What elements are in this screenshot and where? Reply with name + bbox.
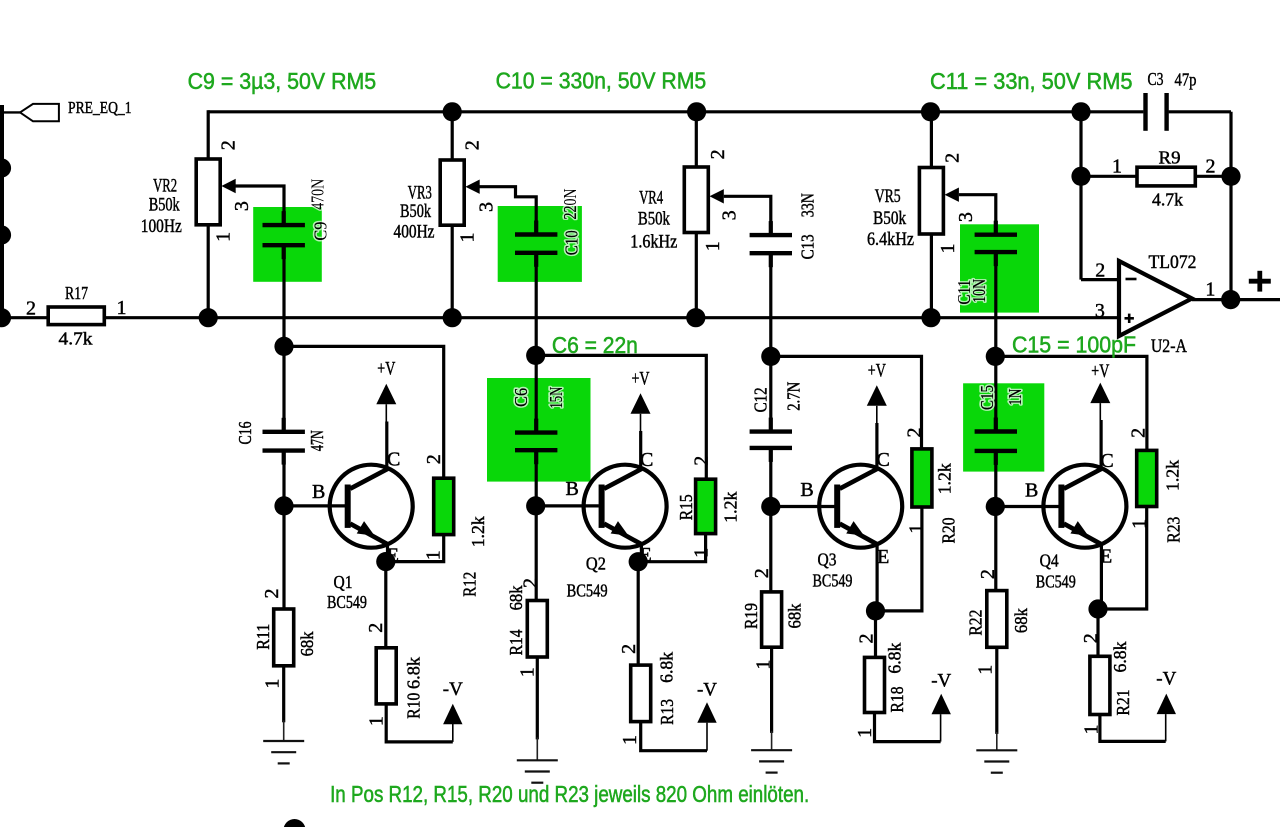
svg-text:2: 2	[1080, 633, 1102, 643]
svg-text:2: 2	[261, 589, 283, 599]
wire VR5 riser	[930, 112, 933, 168]
svg-text:6.8k: 6.8k	[403, 657, 423, 689]
transistor Q4	[1043, 465, 1126, 548]
svg-text:C: C	[387, 448, 400, 470]
wire op-amp pin2	[1081, 278, 1119, 281]
svg-text:R13: R13	[657, 699, 677, 725]
wire VR3 riser	[451, 112, 454, 160]
svg-text:6.4kHz: 6.4kHz	[867, 230, 914, 250]
svg-text:+V: +V	[632, 368, 650, 389]
svg-text:1: 1	[702, 241, 724, 251]
resistor R15 (green)	[696, 479, 716, 533]
wire base node to Q2	[536, 504, 599, 507]
svg-text:R11: R11	[253, 624, 273, 650]
resistor R23 (green)	[1137, 450, 1157, 506]
svg-text:-V: -V	[1156, 669, 1176, 690]
svg-text:3: 3	[719, 210, 741, 220]
wire branch to R15 loop	[536, 355, 707, 479]
node stage4 branch junction	[986, 347, 1005, 366]
ground under R14	[536, 737, 538, 760]
wire Q4 emitter	[1100, 543, 1103, 609]
svg-text:1: 1	[213, 232, 235, 242]
svg-text:C13: C13	[798, 234, 818, 259]
wire right vertical from C3 to output	[1229, 112, 1232, 300]
capacitor C9	[263, 223, 305, 227]
wire R14 to ground	[536, 657, 539, 739]
svg-text:47p: 47p	[1175, 70, 1197, 90]
partial junction dot bottom edge	[284, 819, 306, 827]
label C6 15N	[511, 388, 531, 407]
svg-text:-V: -V	[931, 670, 951, 691]
svg-text:2: 2	[618, 644, 640, 654]
node R9 pin2 junction	[1221, 167, 1240, 186]
wire Q3 collector	[875, 423, 878, 470]
highlight box over C10	[498, 206, 582, 282]
svg-text:R20: R20	[938, 517, 958, 543]
svg-text:4.7k: 4.7k	[1152, 190, 1183, 210]
capacitor C10	[515, 232, 557, 236]
op-amp U2-A TL072	[1119, 261, 1192, 336]
svg-text:Q1: Q1	[334, 572, 353, 592]
wire branch to R12 loop	[284, 346, 444, 478]
svg-text:1: 1	[366, 716, 388, 726]
highlight box over C9	[253, 207, 322, 282]
svg-text:220N: 220N	[560, 188, 580, 219]
svg-text:BC549: BC549	[1036, 572, 1076, 592]
svg-text:1: 1	[854, 728, 876, 738]
svg-text:R15: R15	[676, 494, 696, 520]
svg-text:2: 2	[217, 140, 239, 150]
wire VR4 riser	[695, 112, 698, 167]
svg-text:1.2k: 1.2k	[935, 463, 955, 494]
node Q1 base junction	[274, 496, 293, 515]
resistor R10	[376, 648, 396, 704]
svg-text:VR2: VR2	[153, 177, 177, 197]
svg-text:3: 3	[476, 202, 498, 212]
wire Q2 collector	[639, 431, 642, 470]
wire C15 to Q4 base node	[994, 454, 997, 590]
node R9 pin1 junction	[1071, 167, 1090, 186]
svg-text:2: 2	[977, 569, 999, 579]
wire middle bus	[0, 316, 1119, 319]
svg-text:C12: C12	[751, 387, 771, 412]
wire R15 bottom to emitter node	[638, 534, 705, 562]
svg-text:C16: C16	[235, 421, 255, 444]
wire Q2 emitter	[640, 545, 643, 562]
node stage3 branch junction	[761, 347, 780, 366]
svg-text:47N: 47N	[307, 430, 327, 451]
svg-text:C: C	[877, 449, 890, 471]
svg-text:C15: C15	[977, 385, 997, 410]
wire emitter node down to R18	[874, 611, 877, 658]
wire VR5 pin1 to bus	[930, 234, 933, 318]
wire Q3 emitter	[875, 545, 878, 611]
svg-text:R9: R9	[1159, 148, 1181, 168]
wire top bus	[208, 110, 1081, 113]
svg-text:68k: 68k	[506, 585, 526, 610]
svg-text:3: 3	[955, 212, 977, 222]
wire VR4 pin1 to bus	[695, 233, 698, 318]
svg-text:R21: R21	[1113, 690, 1133, 716]
capacitor C16	[263, 430, 305, 434]
resistor R19	[762, 592, 782, 647]
svg-text:68k: 68k	[297, 631, 317, 656]
wire VR2 pin1 to middle bus	[207, 225, 210, 318]
label C11 10N	[954, 280, 974, 305]
svg-text:VR5: VR5	[875, 187, 901, 207]
svg-text:R17: R17	[65, 283, 88, 303]
svg-text:-V: -V	[443, 679, 463, 700]
svg-text:B50k: B50k	[638, 210, 671, 230]
svg-text:470N: 470N	[307, 179, 327, 210]
minus input marker	[1126, 278, 1137, 281]
node top bus junction VR3	[443, 102, 462, 121]
label C9 470N	[307, 179, 327, 210]
svg-text:C6 = 22n: C6 = 22n	[552, 332, 638, 358]
transistor Q2	[584, 465, 667, 548]
highlight box over C11	[960, 224, 1039, 312]
svg-text:1: 1	[262, 679, 284, 689]
wire C9 down across bus to branch node	[282, 247, 285, 429]
svg-text:1N: 1N	[1005, 388, 1025, 405]
resistor R12 (green)	[434, 478, 454, 534]
svg-text:4.7k: 4.7k	[59, 329, 93, 349]
svg-text:B50k: B50k	[400, 202, 432, 222]
power -V for stage2	[697, 702, 716, 723]
svg-text:6.8k: 6.8k	[885, 642, 905, 673]
svg-text:B: B	[566, 478, 579, 500]
wire R12 bottom to emitter node	[386, 535, 444, 562]
wire Q4 collector	[1099, 420, 1102, 468]
capacitor C3	[1081, 110, 1143, 113]
svg-text:6.8k: 6.8k	[656, 652, 676, 683]
svg-text:B50k: B50k	[873, 209, 907, 229]
wire R11 to ground	[282, 666, 285, 723]
wire VR3 pin1 to bus	[451, 225, 454, 318]
svg-text:Q2: Q2	[586, 553, 606, 573]
svg-text:2: 2	[1206, 156, 1216, 178]
svg-text:R10: R10	[403, 692, 423, 718]
svg-text:1.2k: 1.2k	[1163, 460, 1183, 491]
wire left vertical from bus to R9 and op-amp pin2	[1079, 112, 1082, 280]
wire C16 to Q1 base node	[282, 453, 285, 609]
svg-text:33N: 33N	[798, 193, 818, 217]
wire R23 bottom to emitter node	[1098, 507, 1147, 610]
resistor R14	[527, 601, 547, 658]
power -V for stage4	[1157, 694, 1176, 715]
svg-text:2: 2	[707, 149, 729, 159]
wire R21 to -V	[1100, 715, 1166, 742]
svg-text:100Hz: 100Hz	[141, 217, 182, 237]
node junction dots on left rail	[0, 158, 11, 177]
node stage2 branch junction	[526, 346, 545, 365]
svg-text:C15 = 100pF: C15 = 100pF	[1012, 332, 1136, 358]
svg-text:1: 1	[456, 233, 478, 243]
wire emitter node down to R10	[384, 562, 387, 648]
svg-text:68k: 68k	[1011, 608, 1031, 633]
svg-text:2: 2	[751, 568, 773, 578]
highlight box over C15	[963, 383, 1044, 471]
svg-text:BC549: BC549	[327, 592, 367, 612]
node Q3 base junction	[761, 497, 780, 516]
svg-text:VR4: VR4	[639, 189, 663, 209]
node Q4 base junction	[986, 497, 1005, 516]
svg-text:2: 2	[423, 454, 445, 464]
transistor Q1	[330, 465, 413, 548]
capacitor C12	[750, 429, 792, 433]
power +V for Q3	[867, 385, 887, 406]
label C10 220N	[560, 188, 580, 219]
transistor Q3	[819, 465, 902, 548]
resistor R17	[48, 307, 104, 325]
wire R13 to -V	[641, 722, 707, 751]
svg-text:R14: R14	[506, 629, 526, 655]
svg-text:1: 1	[691, 548, 713, 558]
svg-text:In Pos R12, R15, R20 und R23 j: In Pos R12, R15, R20 und R23 jeweils 820…	[330, 781, 809, 807]
node middle bus junction VR2	[199, 308, 218, 327]
svg-text:-V: -V	[697, 680, 717, 701]
svg-text:3: 3	[1095, 300, 1105, 322]
svg-text:1: 1	[975, 665, 997, 675]
svg-text:C11 = 33n, 50V RM5: C11 = 33n, 50V RM5	[930, 68, 1133, 94]
label C15 1N	[977, 385, 997, 410]
svg-text:R23: R23	[1164, 516, 1184, 542]
svg-text:BC549: BC549	[813, 571, 853, 591]
svg-text:+V: +V	[1091, 361, 1109, 382]
node Q3 emitter junction	[866, 601, 885, 620]
svg-text:C9: C9	[310, 221, 330, 240]
ground under R19	[771, 731, 773, 750]
wire R10 to -V	[386, 704, 453, 742]
wire R20 bottom to emitter node	[876, 507, 922, 611]
svg-text:C6: C6	[511, 388, 531, 407]
svg-text:C10: C10	[562, 230, 582, 255]
svg-text:B50k: B50k	[149, 196, 181, 216]
wire C10 down to branch node	[535, 255, 538, 430]
wire C11 down to branch node	[994, 254, 997, 428]
wire emitter node down to R21	[1096, 609, 1099, 656]
svg-text:1: 1	[517, 667, 539, 677]
plus input marker	[1125, 317, 1134, 320]
svg-text:2: 2	[1128, 428, 1150, 438]
svg-text:R18: R18	[887, 686, 907, 712]
svg-text:BC549: BC549	[567, 581, 608, 601]
svg-text:C9 = 3µ3, 50V RM5: C9 = 3µ3, 50V RM5	[188, 68, 377, 94]
node top bus junction VR4	[687, 102, 706, 121]
svg-text:2.7N: 2.7N	[783, 381, 803, 410]
wire VR2 wiper to C9	[229, 186, 285, 223]
wire branch to R23 loop	[995, 356, 1147, 450]
wire VR4 wiper to C13	[724, 196, 771, 233]
svg-text:PRE_EQ_1: PRE_EQ_1	[68, 98, 132, 117]
svg-text:1.6kHz: 1.6kHz	[630, 233, 677, 253]
node output junction	[1221, 290, 1240, 309]
node top bus junction to C3/R9	[1071, 102, 1090, 121]
potentiometer VR2	[196, 159, 220, 225]
svg-text:1: 1	[422, 550, 444, 560]
capacitor C15	[975, 429, 1017, 433]
svg-text:2: 2	[365, 623, 387, 633]
wire branch to R20 loop	[771, 356, 922, 449]
svg-text:2: 2	[691, 456, 713, 466]
svg-text:+V: +V	[868, 360, 886, 381]
svg-text:2: 2	[462, 140, 484, 150]
svg-text:Q4: Q4	[1040, 551, 1059, 571]
resistor R22	[987, 591, 1007, 648]
node middle bus junction VR4	[686, 308, 705, 327]
svg-text:1.2k: 1.2k	[468, 516, 488, 547]
potentiometer VR5	[919, 168, 943, 235]
node middle bus junction VR5	[921, 308, 940, 327]
node top bus junction VR5	[921, 102, 940, 121]
node Q2 emitter junction	[629, 552, 648, 571]
svg-text:10N: 10N	[969, 279, 989, 303]
svg-text:6.8k: 6.8k	[1110, 641, 1130, 672]
svg-text:+V: +V	[377, 359, 395, 380]
svg-text:1: 1	[619, 735, 641, 745]
wire op-amp output	[1192, 298, 1280, 301]
ground under R11	[283, 720, 285, 741]
potentiometer VR3	[440, 160, 464, 225]
power -V for stage3	[932, 694, 951, 715]
svg-text:R19: R19	[741, 603, 761, 629]
svg-text:1: 1	[937, 244, 959, 254]
power +V for Q1	[376, 384, 396, 405]
wire base node to Q3	[771, 505, 835, 508]
ground under R22	[996, 732, 998, 750]
wire base node to Q4	[995, 505, 1058, 508]
svg-text:2: 2	[855, 634, 877, 644]
wire VR2 riser from top bus	[207, 110, 210, 159]
power -V for stage1	[443, 704, 462, 725]
svg-text:R12: R12	[460, 572, 480, 597]
svg-text:68k: 68k	[784, 603, 804, 628]
svg-text:2: 2	[904, 428, 926, 438]
wire Q1 collector	[385, 422, 388, 470]
resistor R11	[274, 609, 294, 666]
svg-text:B: B	[1025, 480, 1038, 502]
resistor R21	[1090, 656, 1110, 714]
svg-text:C3: C3	[1148, 69, 1164, 89]
wire C12 to Q3 base node	[769, 450, 772, 592]
wire C6 to Q2 base node	[535, 453, 538, 601]
svg-text:Q3: Q3	[818, 550, 837, 570]
svg-text:1: 1	[1112, 156, 1122, 178]
node Q2 base junction	[526, 496, 545, 515]
svg-text:2: 2	[942, 153, 964, 163]
svg-text:B: B	[800, 479, 813, 501]
wire left vertical rail	[0, 105, 4, 318]
svg-text:C10 = 330n, 50V RM5: C10 = 330n, 50V RM5	[496, 68, 707, 94]
wire emitter node down to R13	[637, 562, 640, 665]
svg-text:VR3: VR3	[408, 184, 432, 204]
resistor R18	[865, 657, 885, 712]
wire C13 down to branch node	[769, 255, 772, 429]
output plus marker	[1249, 279, 1271, 284]
resistor R20 (green)	[912, 449, 932, 507]
node Q4 emitter junction	[1088, 599, 1107, 618]
potentiometer VR4	[684, 167, 708, 233]
node Q1 emitter junction	[376, 552, 395, 571]
capacitor C6	[515, 430, 557, 434]
svg-text:R22: R22	[965, 610, 985, 636]
svg-text:1: 1	[1205, 279, 1215, 301]
wire R19 to ground	[770, 647, 773, 733]
node stage1 branch junction	[274, 337, 293, 356]
power +V for Q4	[1090, 383, 1110, 404]
capacitor C13	[750, 233, 792, 237]
wire R22 to ground	[995, 647, 998, 734]
wire R18 to -V	[875, 713, 941, 742]
resistor R13	[631, 665, 651, 722]
node middle bus junction VR3	[443, 308, 462, 327]
svg-text:15N: 15N	[546, 386, 566, 408]
wire base node to Q1	[284, 504, 345, 507]
svg-text:TL072: TL072	[1149, 253, 1197, 273]
svg-text:3: 3	[231, 201, 253, 211]
svg-text:U2-A: U2-A	[1151, 337, 1188, 357]
resistor R9	[1081, 175, 1137, 178]
svg-text:2: 2	[26, 298, 36, 320]
svg-text:1: 1	[906, 524, 928, 534]
highlight box over C6	[487, 378, 591, 482]
power +V for Q2	[631, 393, 651, 414]
svg-text:B: B	[312, 481, 325, 503]
wire Q1 emitter	[386, 544, 389, 562]
connector PRE_EQ_1	[20, 104, 59, 121]
svg-text:E: E	[877, 546, 889, 568]
svg-text:1.2k: 1.2k	[721, 491, 741, 522]
wire VR5 wiper to C11	[959, 195, 996, 233]
svg-text:1: 1	[117, 297, 127, 319]
wire VR3 wiper jog to C10	[473, 187, 536, 233]
svg-text:2: 2	[1095, 260, 1105, 282]
capacitor C11	[975, 232, 1017, 236]
svg-text:400Hz: 400Hz	[394, 223, 435, 243]
